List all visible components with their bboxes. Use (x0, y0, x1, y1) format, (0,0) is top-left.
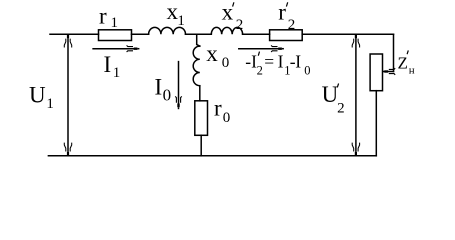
arrowhead U'2 down (352, 143, 359, 156)
wire bottom rail (48, 155, 376, 157)
svg-text:=: = (264, 51, 274, 71)
svg-text:0: 0 (163, 85, 172, 104)
arrowhead Z'n left (382, 68, 395, 75)
resistor r'2 (270, 30, 303, 41)
arrowhead I1 right (127, 45, 140, 52)
arrowhead U1 up (64, 34, 71, 47)
voltage arrow U1 shaft (67, 36, 69, 154)
current arrow I0 shaft (178, 62, 180, 103)
svg-text:1: 1 (46, 96, 54, 112)
wire x1 to x'2 across node (186, 33, 212, 35)
svg-text:0: 0 (222, 55, 230, 71)
current arrow I1 shaft (93, 48, 134, 50)
svg-text:r: r (214, 95, 222, 120)
load Z'n box (370, 54, 382, 91)
svg-text:r: r (99, 4, 107, 29)
wire x0 to r0 (199, 86, 201, 101)
wire top-left segment (50, 33, 99, 35)
svg-text:x: x (206, 41, 218, 66)
svg-text:U: U (322, 82, 339, 107)
svg-text:U: U (29, 83, 46, 108)
arrowhead I0 down (175, 96, 182, 109)
svg-text:0: 0 (304, 64, 310, 78)
svg-text:2: 2 (337, 101, 345, 117)
arrowhead -I'2 right (271, 45, 284, 52)
resistor r0 (195, 101, 208, 136)
wire magnetizing branch drop (197, 34, 200, 46)
arrowhead U1 down (64, 143, 71, 156)
svg-text:x: x (222, 0, 234, 25)
arrowhead U'2 up (352, 34, 359, 47)
svg-text:Z: Z (398, 54, 408, 73)
wire r1 to x1 (132, 33, 149, 35)
inductor x1 (149, 27, 186, 34)
svg-text:r: r (278, 0, 286, 25)
svg-text:2: 2 (288, 17, 296, 33)
svg-text:0: 0 (223, 110, 231, 126)
wire right vertical drop (393, 34, 395, 71)
svg-text:2: 2 (257, 64, 263, 78)
wire r0 to bottom rail (200, 135, 202, 156)
svg-text:I: I (295, 51, 301, 71)
voltage arrow U'2 shaft (355, 36, 357, 154)
svg-text:-I: -I (245, 51, 257, 71)
svg-text:н: н (409, 64, 415, 76)
svg-text:1: 1 (111, 15, 119, 31)
wire arrow feed into load (385, 71, 394, 73)
wire x'2 to r'2 (243, 33, 270, 35)
svg-text:I: I (155, 74, 163, 99)
inductor x'2 (211, 27, 242, 34)
inductor x0 (193, 46, 200, 86)
svg-text:I: I (104, 52, 112, 77)
current arrow -I'2 shaft (239, 48, 279, 50)
svg-text:I: I (278, 51, 284, 71)
svg-text:2: 2 (236, 17, 244, 33)
wire r'2 to right corner (302, 33, 393, 35)
svg-text:1: 1 (113, 65, 121, 81)
resistor r1 (99, 30, 132, 41)
wire load bottom to bottom rail (375, 91, 377, 156)
svg-text:1: 1 (177, 13, 185, 29)
